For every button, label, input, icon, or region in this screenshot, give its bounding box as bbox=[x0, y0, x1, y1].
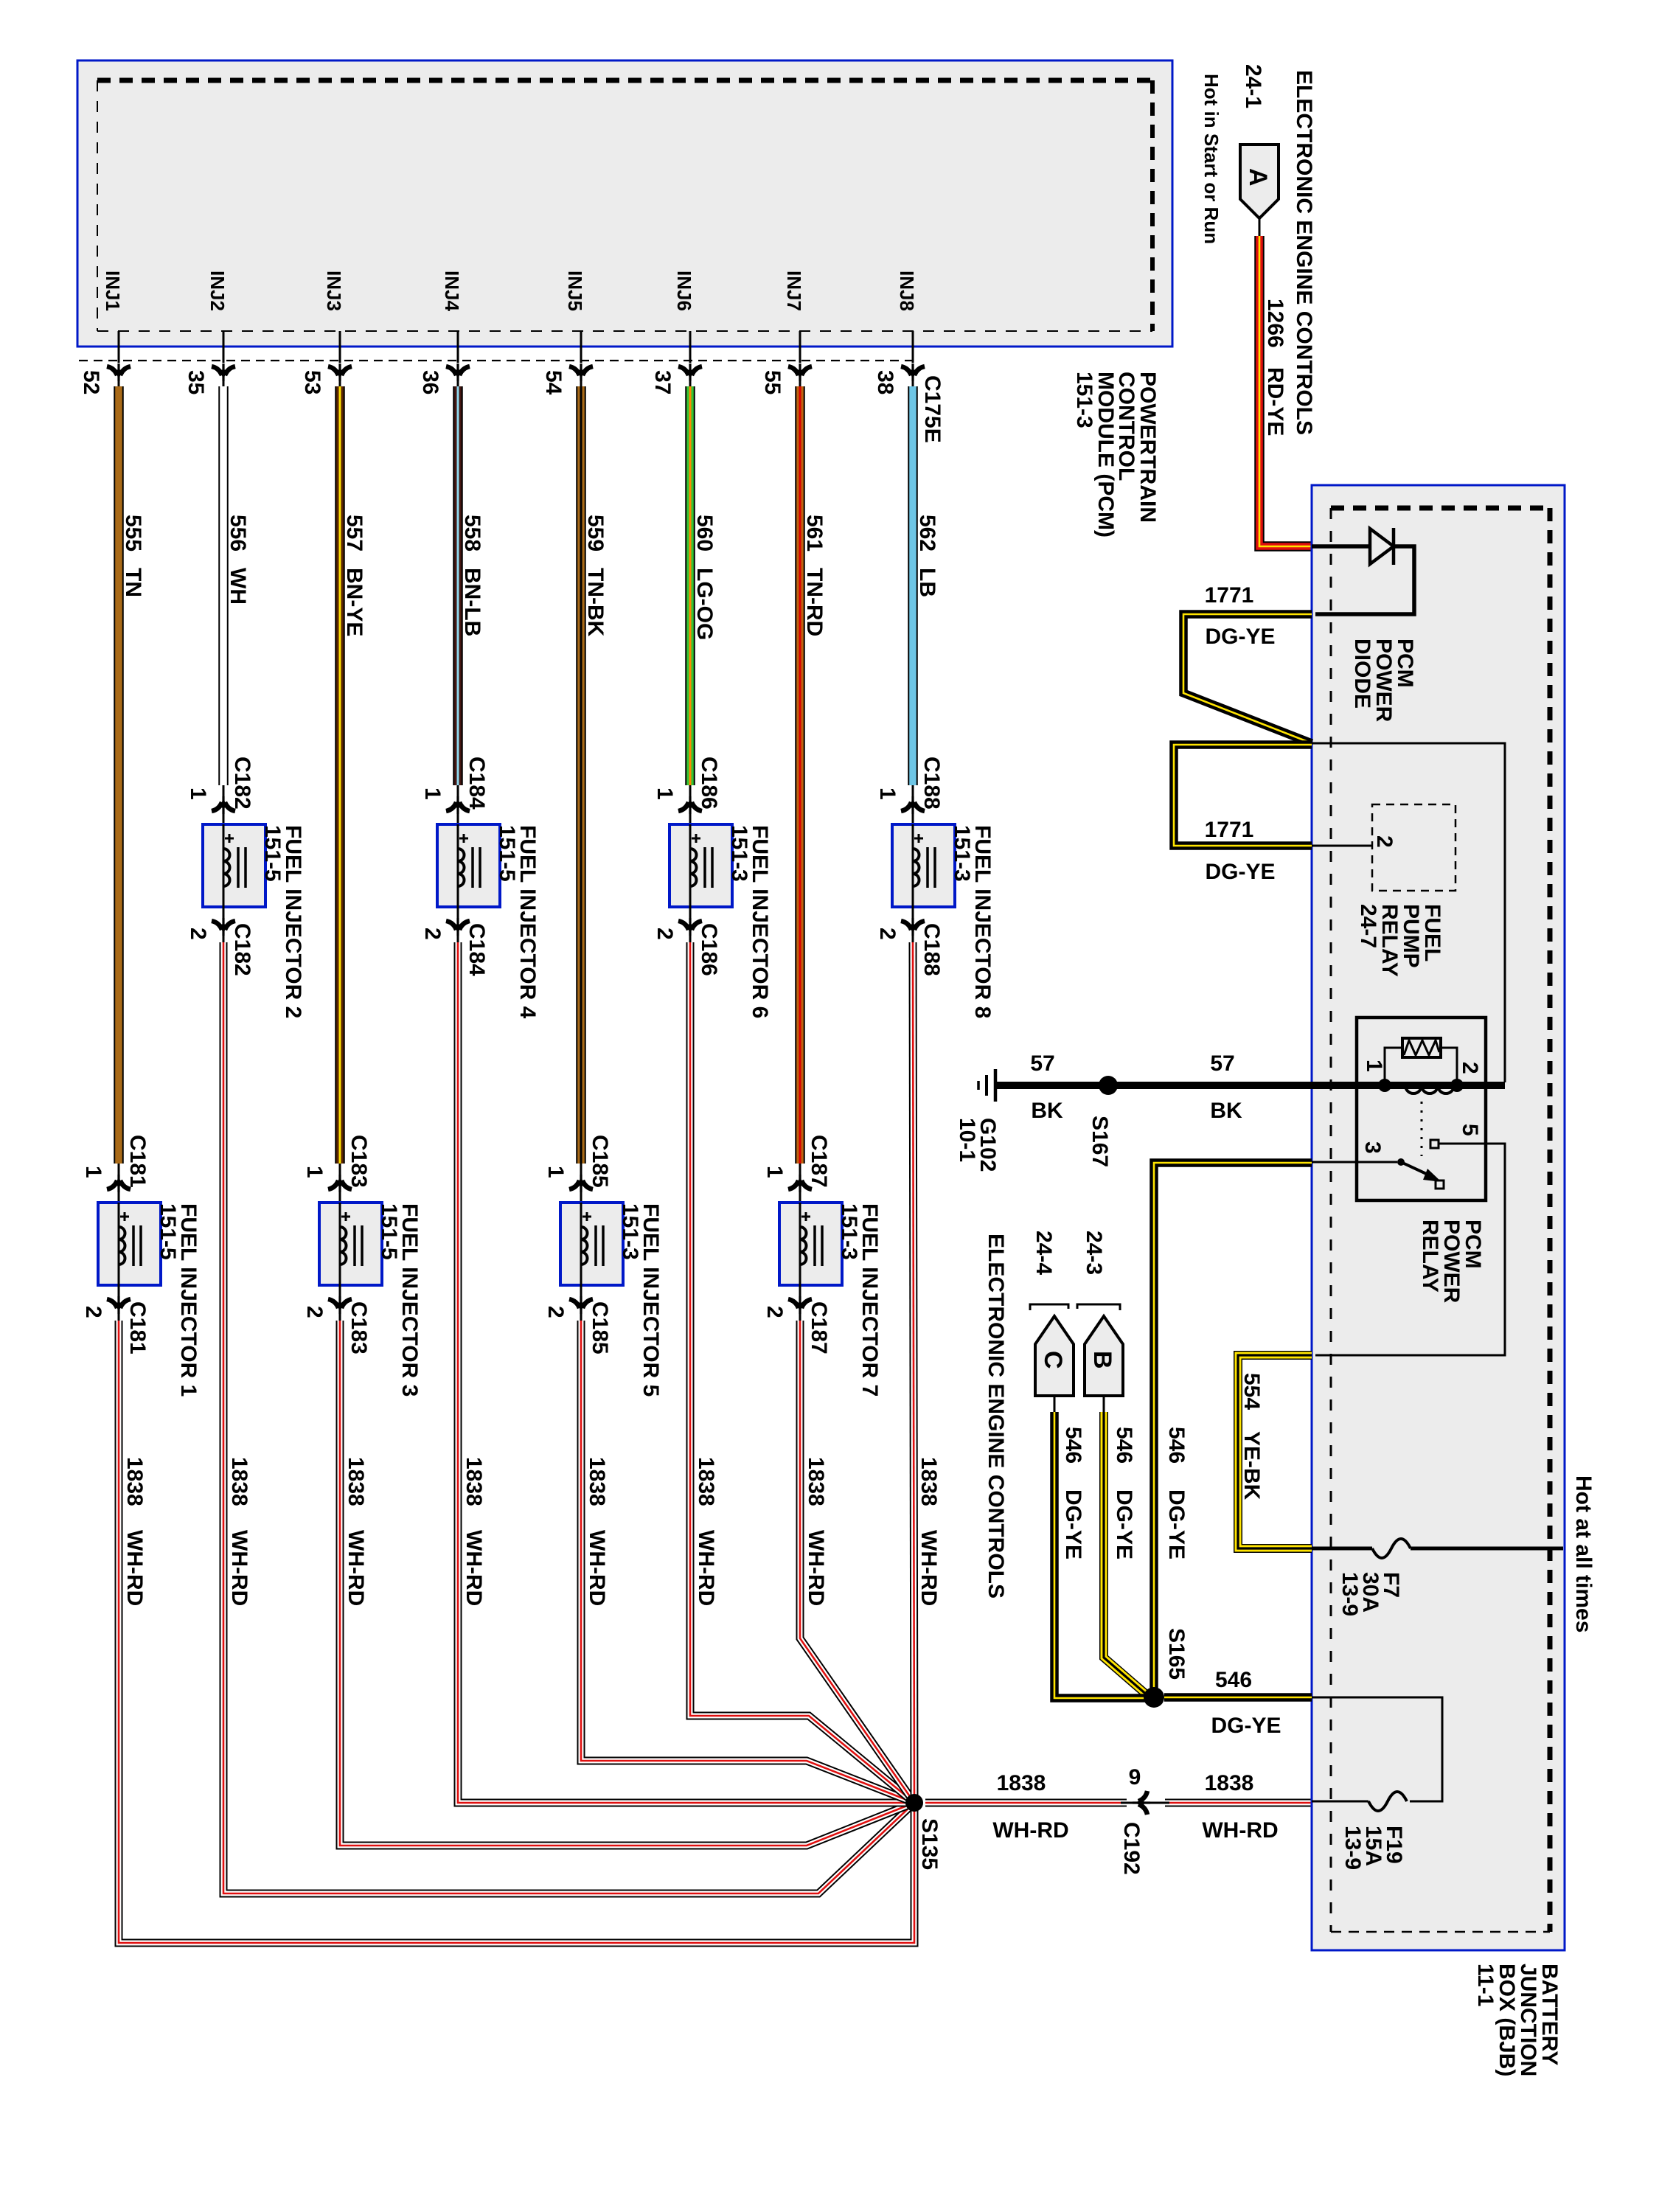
PCM power relay bbox=[1357, 1018, 1486, 1200]
svg-text:52: 52 bbox=[79, 370, 103, 394]
wire 1838 WH-RD from injector 2 bbox=[223, 942, 914, 1893]
svg-text:37: 37 bbox=[650, 370, 675, 394]
connector C185 pin 1 arrow bbox=[569, 1175, 593, 1192]
splice S167 bbox=[1099, 1076, 1118, 1095]
svg-text:WH-RD: WH-RD bbox=[992, 1818, 1068, 1843]
PCM pin 37 drop wire bbox=[689, 331, 692, 363]
fuel injector 4 (C184) bbox=[437, 824, 500, 907]
svg-text:C185: C185 bbox=[588, 1135, 612, 1188]
svg-text:WH-RD: WH-RD bbox=[585, 1530, 609, 1606]
svg-text:2: 2 bbox=[186, 928, 210, 940]
svg-text:1: 1 bbox=[302, 1166, 327, 1178]
svg-text:24-4: 24-4 bbox=[1032, 1231, 1056, 1275]
wire 1838 WH-RD from injector 1 bbox=[119, 1321, 914, 1943]
svg-text:C175E: C175E bbox=[920, 375, 945, 443]
svg-text:151-3: 151-3 bbox=[618, 1203, 642, 1260]
svg-text:53: 53 bbox=[300, 370, 324, 394]
svg-text:DIODE: DIODE bbox=[1350, 639, 1374, 709]
wire 546 DG-YE from connector C bbox=[1054, 1412, 1145, 1698]
svg-text:TN-BK: TN-BK bbox=[583, 568, 608, 637]
wire stub to injector pin 1 bbox=[118, 1164, 120, 1203]
connector arrow pin 52 bbox=[107, 364, 131, 381]
svg-text:WH-RD: WH-RD bbox=[694, 1530, 718, 1606]
connector C181 pin 1 arrow bbox=[107, 1175, 131, 1192]
svg-text:559: 559 bbox=[583, 515, 608, 552]
wire 1838 WH-RD from injector 4 bbox=[458, 942, 914, 1803]
wire 561 TN-RD bbox=[795, 386, 805, 1164]
wire to PCM power relay pin 2 bbox=[1312, 743, 1505, 1082]
svg-text:2: 2 bbox=[1372, 835, 1397, 848]
connector arrow pin 35 bbox=[212, 364, 235, 381]
wire stub from injector pin 2 bbox=[799, 1285, 801, 1321]
PCM pin 35 drop wire bbox=[223, 331, 225, 363]
page reference bracket 24-3 / 24-4 bbox=[1030, 1304, 1068, 1310]
connector arrow pin 36 bbox=[446, 364, 470, 381]
svg-text:151-5: 151-5 bbox=[495, 825, 519, 882]
svg-text:13-9: 13-9 bbox=[1338, 1572, 1362, 1616]
wire stub bbox=[912, 376, 914, 386]
wire stub bbox=[223, 376, 225, 386]
svg-text:24-3: 24-3 bbox=[1082, 1231, 1106, 1275]
svg-text:5: 5 bbox=[1458, 1124, 1482, 1136]
connector A flag bbox=[1240, 145, 1279, 218]
svg-text:546: 546 bbox=[1215, 1668, 1252, 1692]
svg-text:WH: WH bbox=[226, 568, 250, 605]
PCM pin 36 drop wire bbox=[457, 331, 459, 363]
svg-text:9: 9 bbox=[1129, 1765, 1141, 1790]
svg-text:TN: TN bbox=[121, 568, 145, 597]
connector arrow pin 55 bbox=[788, 364, 812, 381]
svg-text:2: 2 bbox=[543, 1306, 568, 1318]
svg-text:1838: 1838 bbox=[917, 1457, 941, 1506]
connector C192 arrow bbox=[1133, 1791, 1150, 1815]
connector arrow pin 53 bbox=[328, 364, 352, 381]
svg-text:WH-RD: WH-RD bbox=[344, 1530, 368, 1606]
relay pin2 junction bbox=[1450, 1079, 1464, 1092]
svg-text:BN-YE: BN-YE bbox=[342, 568, 366, 636]
fuel injector 5 (C185) bbox=[560, 1203, 623, 1285]
svg-text:C188: C188 bbox=[919, 757, 944, 810]
connector C flag bbox=[1035, 1316, 1074, 1396]
fuel injector 3 (C183) bbox=[319, 1203, 382, 1285]
PCM inner dashed border top bbox=[97, 78, 1152, 83]
connector arrow pin 54 bbox=[569, 364, 593, 381]
svg-text:LB: LB bbox=[915, 568, 939, 597]
svg-text:S167: S167 bbox=[1088, 1116, 1112, 1167]
svg-text:B: B bbox=[1088, 1351, 1116, 1369]
svg-text:INJ8: INJ8 bbox=[896, 271, 918, 311]
svg-text:DG-YE: DG-YE bbox=[1164, 1489, 1189, 1559]
svg-text:151-3: 151-3 bbox=[837, 1203, 861, 1260]
splice S135 bbox=[905, 1794, 923, 1812]
wire 546 DG-YE to BJB bbox=[1164, 1693, 1312, 1702]
relay pin 3 line bbox=[1312, 1161, 1397, 1164]
connector C186 pin 2 arrow bbox=[678, 918, 702, 936]
svg-text:1838: 1838 bbox=[997, 1771, 1046, 1795]
svg-text:546: 546 bbox=[1061, 1427, 1085, 1464]
svg-text:Hot at all times: Hot at all times bbox=[1571, 1475, 1596, 1632]
wire stub from injector pin 2 bbox=[118, 1285, 120, 1321]
svg-text:INJ4: INJ4 bbox=[441, 271, 463, 311]
relay coil bbox=[1405, 1085, 1454, 1093]
svg-text:1: 1 bbox=[543, 1166, 568, 1178]
svg-text:36: 36 bbox=[418, 370, 442, 394]
svg-text:1838: 1838 bbox=[227, 1457, 251, 1506]
fuel injector 2 (C182) bbox=[203, 824, 265, 907]
svg-text:546: 546 bbox=[1112, 1427, 1136, 1464]
svg-text:WH-RD: WH-RD bbox=[1202, 1818, 1278, 1843]
svg-text:546: 546 bbox=[1164, 1427, 1189, 1464]
svg-text:C188: C188 bbox=[919, 923, 944, 976]
svg-text:1: 1 bbox=[1362, 1060, 1386, 1072]
svg-text:INJ7: INJ7 bbox=[783, 271, 805, 311]
svg-text:151-5: 151-5 bbox=[156, 1203, 180, 1260]
wire stub to injector pin 1 bbox=[339, 1164, 341, 1203]
svg-text:1838: 1838 bbox=[122, 1457, 147, 1506]
svg-text:24-1: 24-1 bbox=[1241, 64, 1265, 108]
svg-text:1838: 1838 bbox=[694, 1457, 718, 1506]
svg-text:INJ5: INJ5 bbox=[564, 271, 586, 311]
connector C186 pin 1 arrow bbox=[678, 796, 702, 814]
wire stub to injector pin 1 bbox=[912, 785, 914, 824]
fuel injector 1 (C181) bbox=[98, 1203, 161, 1285]
line through C192 bbox=[1121, 1802, 1169, 1804]
wire 556 WH bbox=[218, 386, 229, 785]
wire 555 TN bbox=[114, 386, 124, 1164]
connector C181 pin 2 arrow bbox=[107, 1296, 131, 1314]
wire stub to injector pin 1 bbox=[799, 1164, 801, 1203]
fuel pump relay (dashed box) bbox=[1372, 804, 1455, 891]
wire 546 DG-YE from relay pin 3 bbox=[1154, 1163, 1312, 1694]
PCM inner dashed border left bbox=[97, 80, 98, 331]
wire stub bbox=[580, 376, 582, 386]
fuel injector 8 (C188) bbox=[892, 824, 955, 907]
wire stub from injector pin 2 bbox=[912, 907, 914, 942]
wire 554 YE-BK bbox=[1238, 1355, 1312, 1548]
wire stub from injector pin 2 bbox=[580, 1285, 582, 1321]
wire 1838 WH-RD from injector 3 bbox=[340, 1321, 914, 1846]
wire 557 BN-YE bbox=[335, 386, 345, 1164]
svg-text:1838: 1838 bbox=[1205, 1771, 1254, 1795]
svg-text:1838: 1838 bbox=[804, 1457, 828, 1506]
svg-text:TN-RD: TN-RD bbox=[802, 568, 827, 636]
svg-text:C187: C187 bbox=[807, 1301, 831, 1354]
svg-text:INJ1: INJ1 bbox=[102, 271, 124, 311]
svg-text:1: 1 bbox=[420, 787, 445, 800]
wire stub bbox=[689, 376, 692, 386]
svg-text:151-3: 151-3 bbox=[950, 825, 974, 882]
svg-text:RD-YE: RD-YE bbox=[1263, 367, 1287, 436]
svg-text:54: 54 bbox=[541, 370, 566, 395]
PCM pin 54 drop wire bbox=[580, 331, 582, 363]
svg-text:C184: C184 bbox=[465, 923, 489, 976]
svg-text:2: 2 bbox=[420, 928, 445, 940]
svg-text:561: 561 bbox=[802, 515, 827, 552]
svg-text:INJ2: INJ2 bbox=[206, 271, 229, 311]
relay actuator dotted line bbox=[1421, 1102, 1423, 1156]
svg-text:38: 38 bbox=[873, 370, 897, 394]
svg-text:LG-OG: LG-OG bbox=[692, 568, 717, 640]
wire stub from injector pin 2 bbox=[339, 1285, 341, 1321]
connector arrow pin 37 bbox=[678, 364, 702, 381]
svg-text:151-3: 151-3 bbox=[727, 825, 751, 882]
svg-text:556: 556 bbox=[226, 515, 250, 552]
svg-text:C183: C183 bbox=[347, 1301, 371, 1354]
wire 560 LG-OG bbox=[685, 386, 695, 785]
svg-text:C186: C186 bbox=[697, 757, 721, 810]
svg-text:WH-RD: WH-RD bbox=[804, 1530, 828, 1606]
connector C183 pin 2 arrow bbox=[328, 1296, 352, 1314]
svg-text:2: 2 bbox=[1458, 1062, 1482, 1074]
svg-text:INJ6: INJ6 bbox=[673, 271, 695, 311]
connector C187 pin 1 arrow bbox=[788, 1175, 812, 1192]
BJB inner dashed right bbox=[1548, 508, 1553, 1932]
svg-text:558: 558 bbox=[460, 515, 484, 552]
svg-text:10-1: 10-1 bbox=[955, 1118, 979, 1162]
svg-text:2: 2 bbox=[875, 928, 900, 940]
svg-text:57: 57 bbox=[1030, 1051, 1054, 1076]
fuse F7 bbox=[1372, 1539, 1411, 1558]
svg-text:C182: C182 bbox=[230, 923, 254, 976]
svg-text:1266: 1266 bbox=[1263, 299, 1287, 348]
connector C185 pin 2 arrow bbox=[569, 1296, 593, 1314]
svg-text:1771: 1771 bbox=[1205, 583, 1254, 608]
svg-text:151-5: 151-5 bbox=[377, 1203, 401, 1260]
wire stub bbox=[799, 376, 801, 386]
connector C183 pin 1 arrow bbox=[328, 1175, 352, 1192]
svg-text:A: A bbox=[1244, 168, 1272, 187]
relay switch bbox=[1397, 1158, 1405, 1166]
wire 57 BK bbox=[997, 1082, 1505, 1089]
svg-text:2: 2 bbox=[653, 928, 677, 940]
PCM pin 52 drop wire bbox=[118, 331, 120, 363]
fuel injector 7 (C187) bbox=[779, 1203, 842, 1285]
svg-text:554: 554 bbox=[1239, 1373, 1264, 1410]
BJB inner dashed top bbox=[1331, 506, 1550, 511]
PCM connector C175E dashed line bbox=[79, 360, 919, 361]
connector C182 pin 1 arrow bbox=[212, 796, 235, 814]
svg-text:DG-YE: DG-YE bbox=[1205, 860, 1275, 884]
BJB inner dashed bottom bbox=[1331, 1931, 1550, 1933]
svg-text:555: 555 bbox=[121, 515, 145, 552]
svg-text:C183: C183 bbox=[347, 1135, 371, 1188]
svg-text:55: 55 bbox=[760, 370, 785, 394]
svg-text:C186: C186 bbox=[697, 923, 721, 976]
wire to fuel pump relay pin 2 bbox=[1312, 845, 1372, 847]
line fuse F7 to Hot at all times bbox=[1411, 1547, 1563, 1551]
wire 1838 WH-RD S135 to C192 bbox=[925, 1799, 1127, 1807]
svg-text:DG-YE: DG-YE bbox=[1211, 1714, 1281, 1738]
svg-text:11-1: 11-1 bbox=[1473, 1964, 1498, 2006]
wire 1838 WH-RD C192 to BJB bbox=[1165, 1799, 1312, 1807]
svg-text:C184: C184 bbox=[465, 757, 489, 810]
svg-text:C182: C182 bbox=[230, 757, 254, 810]
wire stub to injector pin 1 bbox=[223, 785, 225, 824]
connector C184 pin 2 arrow bbox=[446, 918, 470, 936]
relay resistor bbox=[1385, 1048, 1402, 1085]
svg-text:Hot in Start or Run: Hot in Start or Run bbox=[1200, 74, 1222, 244]
line to fuse F7 bbox=[1312, 1547, 1372, 1551]
svg-text:35: 35 bbox=[184, 370, 208, 394]
wire 562 LB bbox=[908, 386, 918, 785]
svg-text:2: 2 bbox=[81, 1306, 105, 1318]
BJB inner dashed left bbox=[1330, 508, 1332, 1932]
svg-text:C192: C192 bbox=[1119, 1822, 1144, 1875]
wire 1771 DG-YE loop 1 bbox=[1183, 614, 1312, 743]
wire stub bbox=[339, 376, 341, 386]
relay pin1 junction bbox=[1378, 1079, 1391, 1092]
svg-text:151-5: 151-5 bbox=[260, 825, 285, 882]
fuse F19 bbox=[1368, 1792, 1407, 1811]
wire 546 DG-YE from connector B bbox=[1104, 1412, 1148, 1696]
svg-text:S135: S135 bbox=[917, 1818, 942, 1870]
svg-text:WH-RD: WH-RD bbox=[462, 1530, 486, 1606]
svg-text:WH-RD: WH-RD bbox=[227, 1530, 251, 1606]
connector arrow pin 38 bbox=[901, 364, 925, 381]
svg-text:1838: 1838 bbox=[344, 1457, 368, 1506]
relay pin 5 line bbox=[1315, 1144, 1505, 1355]
svg-text:INJ3: INJ3 bbox=[323, 271, 345, 311]
svg-text:YE-BK: YE-BK bbox=[1239, 1431, 1264, 1500]
wire stub from injector pin 2 bbox=[223, 907, 225, 942]
wire 1838 WH-RD from injector 6 bbox=[690, 942, 914, 1803]
wire 559 TN-BK bbox=[576, 386, 586, 1164]
svg-text:562: 562 bbox=[915, 515, 939, 552]
svg-text:C181: C181 bbox=[125, 1135, 150, 1188]
svg-text:1838: 1838 bbox=[585, 1457, 609, 1506]
PCM inner dashed border bottom bbox=[97, 330, 1152, 332]
wire 1266 RD-YE bbox=[1259, 236, 1312, 546]
wire 558 BN-LB bbox=[453, 386, 463, 785]
PCM pin 38 drop wire bbox=[912, 331, 914, 363]
svg-text:BN-LB: BN-LB bbox=[460, 568, 484, 636]
svg-text:C181: C181 bbox=[125, 1301, 150, 1354]
wire 1838 WH-RD from injector 7 bbox=[800, 1321, 914, 1803]
wire stub from injector pin 2 bbox=[457, 907, 459, 942]
svg-text:557: 557 bbox=[342, 515, 366, 552]
svg-text:560: 560 bbox=[692, 515, 717, 552]
svg-text:1: 1 bbox=[762, 1166, 787, 1178]
line from 546 to fuse F19 bbox=[1312, 1697, 1442, 1801]
svg-text:24-7: 24-7 bbox=[1356, 904, 1380, 948]
svg-text:ELECTRONIC ENGINE CONTROLS: ELECTRONIC ENGINE CONTROLS bbox=[1292, 70, 1316, 435]
svg-text:RELAY: RELAY bbox=[1418, 1220, 1442, 1293]
svg-text:BK: BK bbox=[1031, 1099, 1063, 1123]
PCM module box (ELECTRONIC ENGINE CONTROLS / PCM) bbox=[77, 60, 1172, 347]
wire stub to injector pin 1 bbox=[457, 785, 459, 824]
svg-text:WH-RD: WH-RD bbox=[122, 1530, 147, 1606]
svg-text:2: 2 bbox=[762, 1306, 787, 1318]
fuel injector 6 (C186) bbox=[669, 824, 732, 907]
wire 1771 DG-YE loop 2 bbox=[1174, 745, 1312, 846]
svg-text:1: 1 bbox=[875, 787, 900, 800]
svg-text:3: 3 bbox=[1360, 1141, 1385, 1154]
wire stub from injector pin 2 bbox=[689, 907, 692, 942]
svg-text:1838: 1838 bbox=[462, 1457, 486, 1506]
svg-text:BK: BK bbox=[1210, 1099, 1242, 1123]
svg-text:1771: 1771 bbox=[1205, 818, 1254, 842]
svg-text:151-3: 151-3 bbox=[1072, 372, 1096, 428]
connector C188 pin 1 arrow bbox=[901, 796, 925, 814]
svg-text:1: 1 bbox=[186, 787, 210, 800]
svg-text:13-9: 13-9 bbox=[1340, 1826, 1365, 1870]
PCM inner dashed border right bbox=[1150, 80, 1155, 331]
svg-text:C: C bbox=[1039, 1351, 1067, 1369]
svg-text:2: 2 bbox=[302, 1306, 327, 1318]
wire 1838 WH-RD from injector 8 bbox=[913, 942, 914, 1803]
connector C182 pin 2 arrow bbox=[212, 918, 235, 936]
svg-text:DG-YE: DG-YE bbox=[1112, 1489, 1136, 1559]
wire stub to injector pin 1 bbox=[689, 785, 692, 824]
svg-text:C187: C187 bbox=[807, 1135, 831, 1188]
connector C187 pin 2 arrow bbox=[788, 1296, 812, 1314]
wire stub bbox=[118, 376, 120, 386]
wire 1838 WH-RD from injector 5 bbox=[581, 1321, 914, 1803]
svg-text:57: 57 bbox=[1210, 1051, 1234, 1076]
svg-text:1: 1 bbox=[81, 1166, 105, 1178]
ground G102 bbox=[994, 1069, 998, 1102]
PCM pin 55 drop wire bbox=[799, 331, 801, 363]
svg-text:1: 1 bbox=[653, 787, 677, 800]
svg-text:S165: S165 bbox=[1164, 1628, 1189, 1680]
svg-text:DG-YE: DG-YE bbox=[1205, 625, 1275, 649]
svg-text:WH-RD: WH-RD bbox=[917, 1530, 941, 1606]
connector C184 pin 1 arrow bbox=[446, 796, 470, 814]
connector C188 pin 2 arrow bbox=[901, 918, 925, 936]
wire stub to injector pin 1 bbox=[580, 1164, 582, 1203]
splice S165 bbox=[1144, 1687, 1164, 1708]
PCM power diode bbox=[1312, 544, 1370, 549]
svg-text:DG-YE: DG-YE bbox=[1061, 1489, 1085, 1559]
PCM pin 53 drop wire bbox=[339, 331, 341, 363]
wire stub bbox=[457, 376, 459, 386]
svg-text:ELECTRONIC ENGINE CONTROLS: ELECTRONIC ENGINE CONTROLS bbox=[984, 1234, 1008, 1599]
svg-text:C185: C185 bbox=[588, 1301, 612, 1354]
BATTERY JUNCTION BOX (BJB) bbox=[1312, 485, 1565, 1950]
connector B flag bbox=[1085, 1316, 1123, 1396]
